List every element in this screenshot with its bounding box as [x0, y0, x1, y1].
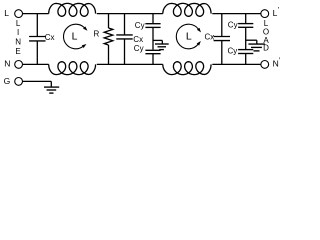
- inductor coil L2a (choke 2 top winding): [163, 3, 211, 16]
- label LINE letter L: [16, 19, 21, 28]
- label Cy (mid lower Y-cap): [134, 44, 144, 53]
- terminal circle L (line input): [15, 10, 23, 18]
- wire G terminal to earth ground: [23, 80, 52, 82]
- svg-text:Cx: Cx: [45, 33, 55, 42]
- svg-text:L: L: [72, 31, 78, 43]
- capacitor Cy mid lower (Y-cap neutral to earth): [145, 50, 160, 64]
- svg-text:L: L: [16, 19, 21, 28]
- label N (neutral terminal): [4, 58, 10, 68]
- terminal circle N (neutral input): [15, 61, 23, 69]
- label L inside choke 2: [186, 31, 192, 43]
- label G (ground terminal): [4, 76, 11, 86]
- inductor coil L1a (choke 1 top winding): [49, 3, 96, 16]
- capacitor Cx2 (mid X-capacitor): [116, 14, 132, 65]
- label Cx (output X-cap value): [205, 33, 215, 42]
- wire N terminal to coil L1b: [23, 63, 49, 65]
- label Cy (right lower Y-cap): [228, 46, 238, 55]
- earth ground (chassis, at G terminal): [44, 81, 59, 93]
- terminal circle N' (neutral output): [261, 61, 269, 69]
- inductor coil L1b (choke 1 bottom winding): [49, 62, 96, 75]
- label N' (neutral output terminal): [273, 56, 281, 69]
- svg-text:N: N: [15, 37, 21, 46]
- label R (bleeder resistor): [94, 29, 100, 38]
- label L (line terminal): [4, 8, 9, 18]
- terminal circle G (ground input): [15, 78, 23, 86]
- svg-text:Cy: Cy: [135, 21, 145, 30]
- label Cy (mid upper Y-cap): [135, 21, 145, 30]
- capacitor Cx1 (input X-capacitor): [29, 14, 45, 65]
- wire N right section to N' terminal: [212, 63, 261, 65]
- svg-text:L: L: [186, 31, 192, 43]
- label LOAD letter L: [264, 19, 269, 28]
- choke 2 coupling circle with flux arrows: [176, 24, 201, 49]
- svg-text:Cy: Cy: [134, 44, 144, 53]
- choke 1 coupling circle with flux arrows: [63, 24, 87, 49]
- svg-text:L: L: [4, 8, 9, 18]
- wire L mid section (between chokes): [97, 13, 163, 15]
- svg-text:’: ’: [278, 5, 280, 14]
- label LINE letter E: [15, 47, 20, 56]
- inductor coil L2b (choke 2 bottom winding): [163, 62, 211, 75]
- label Cy (right upper Y-cap): [228, 21, 238, 30]
- svg-text:Cy: Cy: [228, 46, 238, 55]
- svg-text:G: G: [4, 76, 11, 86]
- capacitor Cx3 (output X-capacitor): [214, 14, 230, 65]
- label Cx (input X-cap value): [45, 33, 55, 42]
- earth ground (mid Y-cap junction): [153, 40, 169, 49]
- svg-text:D: D: [263, 44, 269, 53]
- label L inside choke 1: [72, 31, 78, 43]
- wire N mid section (between chokes): [97, 63, 163, 65]
- label LOAD letter O: [263, 28, 269, 37]
- label LOAD letter D: [263, 44, 269, 53]
- svg-text:Cx: Cx: [133, 35, 143, 44]
- resistor R (bleeder): [104, 14, 113, 65]
- svg-text:’: ’: [279, 56, 281, 65]
- label Cx (mid X-cap value): [133, 35, 143, 44]
- svg-text:I: I: [17, 28, 19, 37]
- label LINE letter N: [15, 37, 21, 46]
- capacitor Cy mid upper (Y-cap line to earth): [145, 14, 160, 50]
- svg-text:N: N: [4, 58, 10, 68]
- wire L right section to L' terminal: [212, 13, 261, 15]
- label LOAD letter A: [263, 36, 269, 45]
- capacitor Cy right upper (Y-cap line to earth): [238, 14, 253, 49]
- svg-text:E: E: [15, 47, 20, 56]
- svg-text:Cx: Cx: [205, 33, 215, 42]
- capacitor Cy right lower (Y-cap neutral to earth): [238, 50, 253, 65]
- label L' (line output terminal): [273, 5, 280, 18]
- label LINE letter I: [17, 28, 19, 37]
- terminal circle L' (line output): [261, 10, 269, 18]
- wire L terminal to coil L1a: [23, 13, 49, 15]
- svg-text:Cy: Cy: [228, 21, 238, 30]
- svg-text:R: R: [94, 29, 100, 38]
- earth ground (right Y-cap junction): [246, 40, 265, 51]
